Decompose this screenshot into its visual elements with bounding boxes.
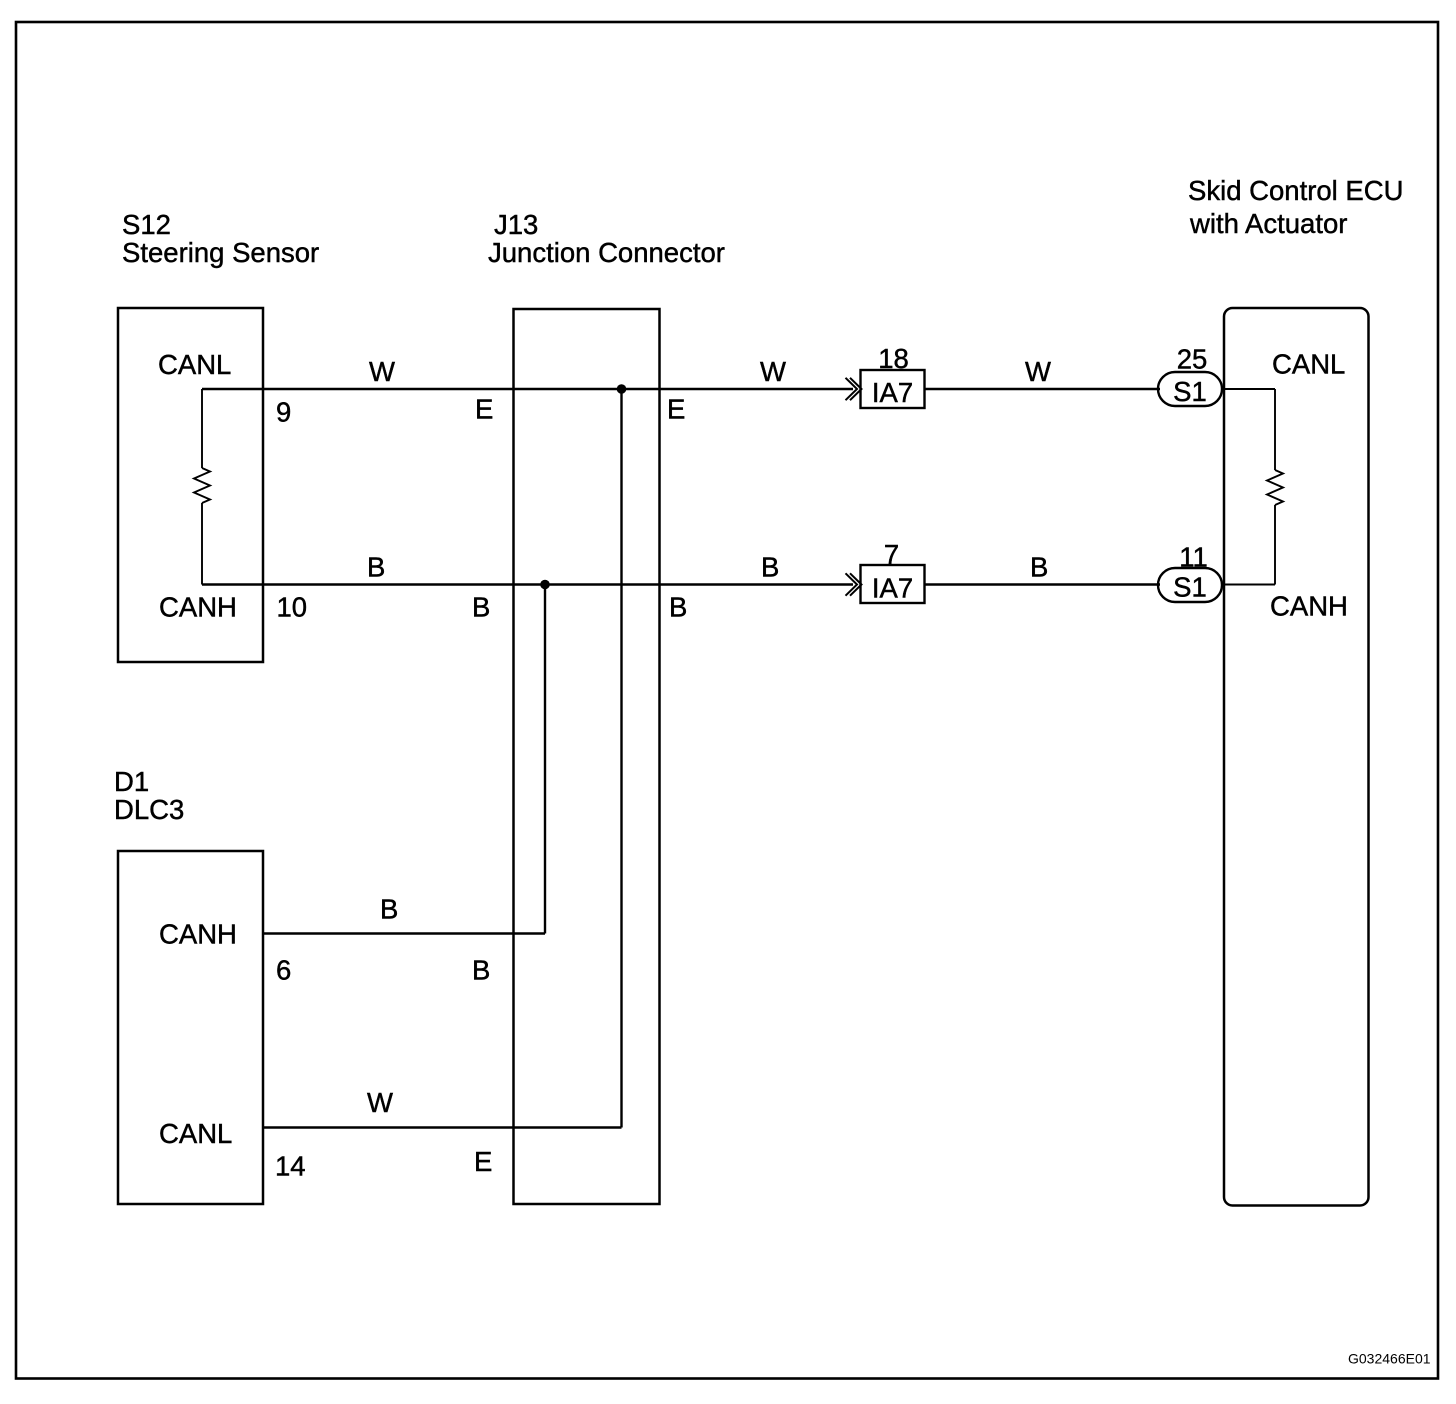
connector S1 pin 25 oval bbox=[1158, 372, 1222, 406]
svg-text:CANH: CANH bbox=[1270, 591, 1348, 622]
resistor R terminator inside ECU bbox=[1267, 389, 1283, 585]
svg-text:6: 6 bbox=[276, 955, 291, 986]
svg-text:B: B bbox=[669, 592, 687, 623]
svg-text:Junction Connector: Junction Connector bbox=[488, 237, 725, 268]
svg-text:W: W bbox=[760, 356, 786, 387]
svg-text:S12: S12 bbox=[122, 209, 171, 240]
arrow chevrons into IA7 pin 18 bbox=[846, 378, 862, 400]
svg-text:7: 7 bbox=[884, 539, 899, 570]
resistor R terminator inside S12 bbox=[194, 389, 210, 585]
junction connector J13 box bbox=[514, 309, 660, 1204]
label J13 heading bbox=[488, 209, 725, 268]
svg-text:W: W bbox=[369, 356, 395, 387]
wire B from D1 CANH to J13 bbox=[263, 932, 545, 934]
svg-text:J13: J13 bbox=[494, 209, 538, 240]
connector IA7 pin 7 box bbox=[861, 565, 925, 603]
connector S1 pin 11 oval bbox=[1158, 568, 1222, 602]
svg-text:9: 9 bbox=[276, 397, 291, 428]
wire CANH inside ECU bbox=[1222, 584, 1275, 586]
svg-text:14: 14 bbox=[275, 1151, 306, 1182]
node junction dot on B wire in J13 bbox=[540, 580, 550, 590]
svg-text:11: 11 bbox=[1179, 542, 1208, 573]
label D1 heading bbox=[114, 766, 184, 825]
svg-text:CANL: CANL bbox=[159, 1118, 232, 1149]
svg-text:CANH: CANH bbox=[159, 919, 237, 950]
svg-text:D1: D1 bbox=[114, 766, 149, 797]
wire drop from W junction to DLC3 CANL bbox=[620, 389, 622, 1128]
wire CANH B from S12 to IA7 bbox=[202, 583, 853, 585]
svg-text:DLC3: DLC3 bbox=[114, 794, 184, 825]
svg-text:IA7: IA7 bbox=[872, 377, 913, 408]
connector D1 DLC3 box bbox=[118, 851, 263, 1204]
svg-text:S1: S1 bbox=[1173, 572, 1207, 603]
svg-text:B: B bbox=[367, 552, 385, 583]
svg-text:E: E bbox=[475, 394, 493, 425]
connector S12 steering sensor box bbox=[118, 308, 263, 662]
label Skid Control ECU heading bbox=[1188, 175, 1404, 239]
svg-text:10: 10 bbox=[277, 592, 308, 623]
node junction dot on W wire in J13 bbox=[617, 384, 627, 394]
svg-text:E: E bbox=[667, 394, 685, 425]
svg-text:G032466E01: G032466E01 bbox=[1348, 1351, 1431, 1367]
svg-text:B: B bbox=[472, 592, 490, 623]
svg-text:W: W bbox=[367, 1087, 393, 1118]
svg-text:Skid Control ECU: Skid Control ECU bbox=[1188, 175, 1404, 206]
wire B from IA7 to S1 bbox=[925, 583, 1161, 585]
svg-text:18: 18 bbox=[878, 343, 909, 374]
wire CANL W from S12 to IA7 bbox=[202, 388, 853, 390]
wire drop from B junction to DLC3 CANH bbox=[544, 585, 546, 934]
connector IA7 pin 18 box bbox=[861, 370, 925, 408]
svg-text:25: 25 bbox=[1177, 344, 1208, 375]
label S12 heading bbox=[122, 209, 319, 268]
svg-text:W: W bbox=[1025, 356, 1051, 387]
svg-text:CANL: CANL bbox=[1272, 349, 1345, 380]
wire W from D1 CANL to J13 bbox=[263, 1126, 622, 1128]
svg-text:B: B bbox=[1030, 552, 1048, 583]
svg-text:CANL: CANL bbox=[158, 349, 231, 380]
skid control ECU box bbox=[1224, 308, 1369, 1206]
svg-text:with Actuator: with Actuator bbox=[1189, 208, 1347, 239]
wire W from IA7 to S1 bbox=[925, 388, 1161, 390]
svg-text:CANH: CANH bbox=[159, 592, 237, 623]
svg-text:B: B bbox=[761, 552, 779, 583]
svg-text:B: B bbox=[472, 955, 490, 986]
svg-text:Steering Sensor: Steering Sensor bbox=[122, 237, 319, 268]
svg-text:S1: S1 bbox=[1173, 376, 1207, 407]
svg-text:IA7: IA7 bbox=[872, 573, 913, 604]
svg-text:B: B bbox=[380, 894, 398, 925]
arrow chevrons into IA7 pin 7 bbox=[846, 573, 862, 595]
wire CANL inside ECU bbox=[1222, 388, 1275, 390]
svg-text:E: E bbox=[474, 1146, 492, 1177]
